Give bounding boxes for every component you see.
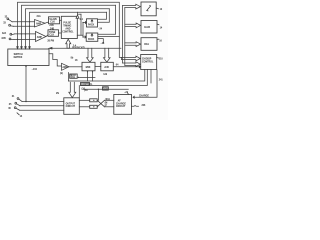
- svg-text:CLK: CLK: [50, 22, 55, 24]
- wire R4 to charge: [134, 70, 157, 97]
- svg-text:CONTROL: CONTROL: [62, 32, 74, 34]
- tag C box: [81, 83, 90, 86]
- svg-text:3CH: 3CH: [70, 77, 75, 79]
- crossover diagonals: [97, 100, 104, 107]
- phone box R1: [141, 2, 156, 16]
- svg-text:34B: 34B: [50, 28, 55, 31]
- svg-text:ADDR/CNTL: ADDR/CNTL: [72, 47, 86, 50]
- battery pack A box: [87, 19, 98, 27]
- svg-text:CHARGE: CHARGE: [139, 95, 149, 98]
- svg-text:TOP: TOP: [103, 89, 108, 91]
- wire S1 to amp1: [12, 21, 34, 23]
- switch matrix box: [8, 49, 49, 66]
- wire U1 right to packs: [77, 34, 83, 36]
- svg-text:CHARGE: CHARGE: [116, 102, 126, 105]
- svg-text:AF: AF: [118, 100, 122, 103]
- phone glyph: [147, 6, 151, 11]
- wire output to crossover upper: [79, 99, 89, 101]
- filter box T1: [49, 17, 60, 24]
- svg-text:TONE: TONE: [49, 32, 56, 34]
- svg-text:32A: 32A: [2, 32, 7, 35]
- switch S5: [17, 98, 19, 100]
- addr cntl bus wire: [51, 47, 121, 49]
- arrows into matrix top: [17, 47, 19, 49]
- wire T2 to U1: [59, 32, 62, 34]
- wire bus L4: [30, 12, 107, 46]
- svg-text:14: 14: [160, 26, 163, 29]
- wire matrix down left: [25, 66, 27, 102]
- svg-text:30: 30: [8, 108, 11, 110]
- svg-text:12: 12: [160, 9, 163, 11]
- svg-text:SWITCH: SWITCH: [14, 54, 23, 56]
- svg-text:(b): (b): [60, 73, 63, 75]
- svg-text:24B: 24B: [49, 24, 54, 27]
- svg-text:~104: ~104: [32, 68, 38, 71]
- control unit U1 pulse timing: [61, 16, 77, 38]
- component X1: [90, 99, 98, 102]
- wires into charge box: [105, 99, 114, 101]
- svg-text:TIMING: TIMING: [63, 25, 71, 27]
- stair wire matrix to amp3: [49, 54, 62, 66]
- svg-text:~24: ~24: [100, 42, 105, 45]
- component X2: [90, 105, 98, 108]
- svg-text:CLK: CLK: [49, 35, 54, 37]
- switch S7: [14, 107, 16, 109]
- svg-text:8b: 8b: [71, 57, 74, 59]
- hollow arrow into R4 upper: [122, 56, 141, 61]
- wire R4 stub right: [150, 70, 152, 84]
- wire amp2 out: [46, 35, 48, 37]
- svg-text:CONTROL: CONTROL: [142, 61, 154, 63]
- filter box T2: [48, 30, 59, 37]
- wire bus L3: [26, 9, 110, 47]
- hollow arrow into R2: [125, 23, 141, 28]
- control box R4: [141, 55, 157, 70]
- tick R2 label: [157, 23, 159, 26]
- junction dots on switch wires: [29, 21, 30, 22]
- wire S6 to output: [20, 105, 64, 107]
- svg-text:32B: 32B: [1, 38, 6, 40]
- tick label charge box: [128, 93, 129, 95]
- rail A: [79, 76, 95, 78]
- svg-text:PULSE: PULSE: [63, 22, 71, 24]
- svg-text:16: 16: [159, 40, 162, 42]
- svg-text:MATRIX: MATRIX: [14, 56, 23, 59]
- wire M2 to R4: [113, 66, 139, 68]
- svg-text:3CH: 3CH: [105, 99, 110, 101]
- lead for label 14: [17, 113, 19, 115]
- mixer box M1: [82, 62, 95, 71]
- svg-text:CIRCUIT: CIRCUIT: [116, 106, 126, 108]
- wire pack B out corner: [98, 39, 104, 44]
- tick R4 label: [157, 57, 159, 60]
- arrow into B-pack left: [83, 36, 85, 38]
- rail C drop to output box: [78, 86, 80, 98]
- tag A box: [70, 74, 78, 78]
- svg-text:AND: AND: [65, 27, 70, 30]
- svg-text:SLAVE: SLAVE: [49, 18, 57, 21]
- svg-text:2N: 2N: [56, 93, 59, 95]
- op-amp A2: [36, 32, 47, 42]
- svg-text:A/D: A/D: [104, 65, 109, 69]
- svg-text:18: 18: [75, 60, 78, 62]
- rail D: [83, 88, 128, 90]
- svg-text:12d: 12d: [103, 74, 108, 76]
- switch S4: [9, 38, 11, 40]
- svg-text:241: 241: [159, 78, 164, 81]
- wire M1 to M2: [95, 66, 101, 68]
- output circuit box: [64, 98, 80, 115]
- charge circuit box: [114, 95, 132, 115]
- wire output to crossover lower: [79, 106, 89, 108]
- hollow arrow into R4 lower: [123, 62, 141, 67]
- svg-text:31A: 31A: [37, 15, 42, 18]
- svg-text:64: 64: [116, 63, 119, 66]
- hollow arrow into mixer M1: [87, 48, 94, 62]
- svg-text:2-1: 2-1: [80, 19, 84, 21]
- svg-text:AMP: AMP: [37, 36, 43, 39]
- wire bus L2: [22, 5, 116, 46]
- svg-text:206: 206: [142, 105, 147, 107]
- svg-text:EAR: EAR: [144, 25, 150, 29]
- AD box M2: [101, 62, 114, 71]
- switch S2 hook: [9, 24, 11, 26]
- wire S3 to amp2: [15, 33, 36, 35]
- charge box right squiggle: [132, 105, 139, 108]
- wire branch to B-pack lower loop: [98, 36, 119, 38]
- rail B: [69, 69, 145, 81]
- svg-text:210: 210: [159, 59, 164, 61]
- wire branch to A-pack lower loop: [98, 9, 109, 22]
- tick R3 label: [157, 38, 159, 40]
- svg-text:CH/DISP: CH/DISP: [142, 59, 152, 61]
- switch S6: [15, 102, 17, 104]
- wire S7 to output: [20, 109, 64, 111]
- op-amp A3: [62, 63, 70, 70]
- pack B arrow glyph: [91, 34, 93, 36]
- wire branch to B-pack upper loop: [98, 5, 115, 34]
- svg-text:AMP: AMP: [62, 66, 68, 69]
- wire amp1 out: [45, 22, 49, 23]
- tick R1 label: [156, 7, 158, 10]
- pack A arrow glyph: [91, 20, 93, 22]
- wire branch to A-pack upper loop: [98, 12, 107, 19]
- svg-text:DIA: DIA: [144, 42, 149, 46]
- wire S2 to amp1: [14, 25, 35, 27]
- wire amp3 to mixer: [69, 66, 82, 68]
- op-amp A1: [35, 20, 46, 28]
- stubs M1 bottom: [87, 71, 89, 81]
- svg-text:31: 31: [12, 96, 15, 98]
- switch S3: [10, 33, 12, 35]
- svg-text:PACK: PACK: [88, 24, 95, 27]
- wire S5 to output: [22, 101, 64, 103]
- hollow arrow into output circuit: [69, 82, 76, 97]
- svg-text:35: 35: [9, 104, 12, 106]
- arrow up into U1 bottom: [66, 39, 71, 48]
- arrow into U1 top: [77, 12, 79, 15]
- svg-text:33: 33: [3, 22, 6, 24]
- hollow arrow into R3: [125, 42, 141, 47]
- switch S1 hook: [7, 18, 9, 20]
- text labels: [1, 9, 163, 118]
- dial box R3: [141, 38, 157, 51]
- svg-text:PACK: PACK: [88, 38, 95, 41]
- wire T1 to U1: [60, 19, 62, 21]
- svg-text:CONTROL: CONTROL: [81, 84, 93, 86]
- wire S4 to amp2: [14, 38, 36, 40]
- svg-text:AMP: AMP: [36, 22, 42, 25]
- svg-text:MIX: MIX: [86, 65, 91, 69]
- svg-text:14: 14: [20, 115, 23, 118]
- hollow arrow into AD M2: [104, 48, 111, 62]
- svg-text:~24: ~24: [98, 27, 103, 30]
- wire U1 right upper: [80, 14, 82, 35]
- wire bus L1 top: [18, 2, 122, 57]
- rail D drop to X1: [97, 89, 99, 100]
- battery pack B box: [86, 33, 98, 41]
- svg-text:28 PM: 28 PM: [47, 41, 54, 43]
- hollow arrow into R1: [123, 4, 141, 9]
- tag D box: [103, 87, 109, 90]
- ear box R2: [141, 21, 157, 34]
- rail C: [81, 69, 148, 85]
- hollow bus verticals right: [122, 5, 124, 63]
- svg-text:CIRCUIT: CIRCUIT: [66, 106, 76, 108]
- arrow into A-pack left: [83, 22, 86, 24]
- rail B riser: [68, 73, 70, 82]
